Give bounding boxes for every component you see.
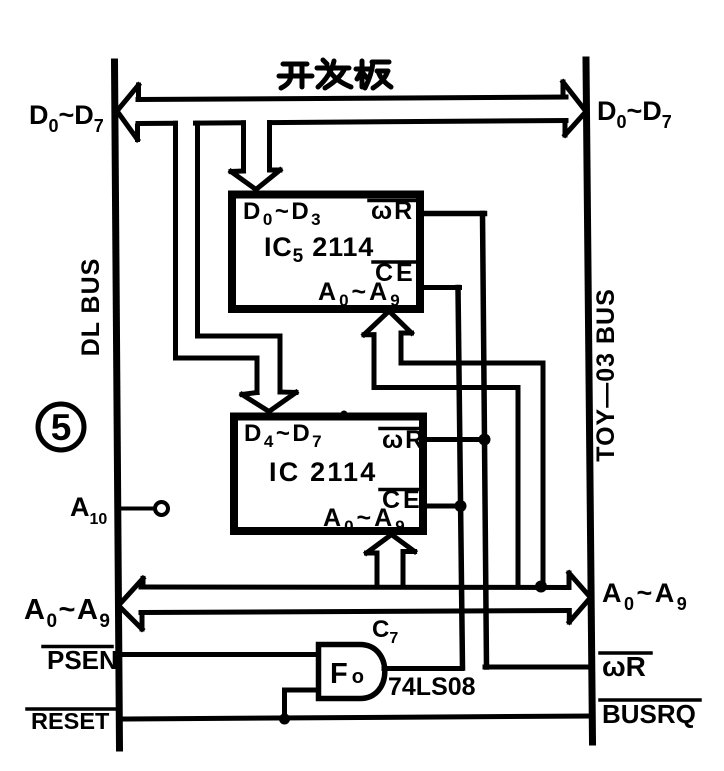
arrowhead up into IC2 (A0~A9) [367,535,415,554]
wire top data-bus arrow lower line segment 3 [270,121,567,123]
svg-text:BUSRQ: BUSRQ [602,699,696,729]
label 开发板 (hand-drawn strokes) [279,60,391,88]
wire CE pin IC1 to CE net [420,285,460,290]
overline of WR pin IC5 [369,199,416,203]
wire address shaft to IC2, right wall [401,552,406,587]
wire WR pin IC2 to WR net [423,437,485,442]
arrowhead left of top data-bus arrow [117,85,139,140]
wire A10 stub [120,507,154,511]
wire gate output to CE net [384,666,462,671]
bus TOY-03 (right vertical bus) [586,60,593,742]
svg-text:5: 5 [51,407,72,448]
wire address shaft to IC2, left wall [375,553,380,587]
overline of WR right [600,651,651,655]
svg-text:RESET: RESET [31,708,110,734]
junction dot CE net / IC2 CE pin [455,500,467,512]
wire RESET / BUSRQ line [120,716,592,719]
svg-text:TOY—03 BUS: TOY—03 BUS [592,288,620,461]
junction dot on RESET line [279,714,290,725]
svg-text:PSEN: PSEN [47,645,118,675]
figure number circle 5 [38,404,84,450]
junction speck on IC2 top edge [341,411,348,418]
IC U5 2114 box [232,195,420,310]
wire A bus arrow upper line [141,585,569,591]
svg-text:D4~D7: D4~D7 [244,420,324,451]
overline of BUSRQ [600,698,700,702]
arrowhead up into IC1 (A0~A9) [364,311,412,335]
svg-text:IC5 2114: IC5 2114 [264,232,374,267]
arrowhead down into IC1 (D0~D3) [231,170,280,190]
IC 2114 box (lower) [234,417,423,532]
wire RESET tap to gate lower input [285,690,319,719]
wire WR net vertical [483,214,487,668]
wire CE net vertical [458,288,463,669]
bus DL (left vertical bus) [115,62,120,748]
AND gate U3 74LS08 [319,645,385,699]
wire address tube to IC1, inner wall [374,335,518,586]
overline of PSEN [43,645,112,649]
junction dot WR net / IC2 WR pin [479,434,491,446]
wire WR pin IC1 to WR net [420,211,485,217]
overline of CE pin IC2 [380,488,421,492]
arrowhead down into IC2 (D4~D7) [242,392,296,412]
wire shaft of arrow into IC1, right wall [267,123,272,170]
junction dot address tube / A bus line [535,581,547,593]
wire shaft of arrow into IC1, left wall [241,123,246,171]
wire CE pin IC2 to CE net [423,504,461,509]
svg-text:D0~D3: D0~D3 [243,198,323,229]
svg-text:A0~A9: A0~A9 [318,278,403,310]
arrowhead right of top data-bus arrow [563,82,586,135]
svg-text:A0~A9: A0~A9 [323,504,408,536]
wire top data-bus arrow upper line [138,97,566,100]
overline of RESET [27,707,115,711]
wire WR line to right bus [485,665,589,670]
wire address tube to IC1, outer wall [401,333,543,586]
wire A bus arrow lower line [141,611,569,613]
svg-text:74LS08: 74LS08 [388,673,476,701]
wire top data-bus arrow lower line segment 1 [138,121,176,126]
terminal circle A10 [155,502,168,515]
arrowhead right of A bus arrow [569,573,591,622]
overline of WR pin IC2 [380,427,425,431]
arrowhead left of A bus arrow [119,578,144,629]
overline of CE pin IC5 [373,260,416,264]
svg-text:ωR: ωR [602,651,646,682]
svg-text:DL BUS: DL BUS [77,258,105,357]
wire PSEN to gate input [120,652,318,657]
wire tube to IC2 data arrow, right wall [198,123,281,392]
wire tube to IC2 data arrow, left wall [176,123,258,392]
svg-text:IC 2114: IC 2114 [269,457,377,487]
wire top data-bus arrow lower line segment 2 [196,120,244,125]
